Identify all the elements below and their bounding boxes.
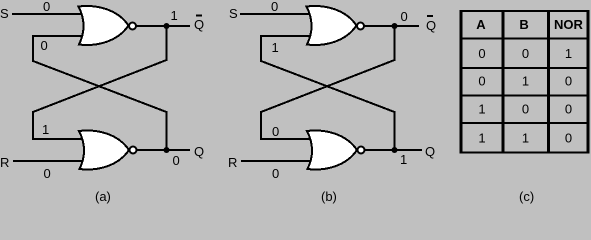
wire feedback: bottom gate output to top gate input 2 (a) bbox=[33, 36, 167, 150]
svg-text:0: 0 bbox=[41, 38, 48, 53]
inversion bubble G1 (a) bbox=[129, 23, 136, 30]
table row divider 2 bbox=[460, 95, 590, 97]
table top border bbox=[460, 10, 590, 12]
svg-text:0: 0 bbox=[272, 166, 279, 181]
svg-text:B: B bbox=[519, 17, 528, 32]
wire feedback: top gate output to bottom gate input 1 (a) bbox=[33, 26, 167, 139]
svg-text:0: 0 bbox=[522, 102, 529, 117]
svg-text:1: 1 bbox=[171, 8, 178, 23]
svg-text:0: 0 bbox=[43, 0, 50, 14]
svg-text:Q: Q bbox=[426, 18, 436, 33]
table row divider 1 bbox=[460, 67, 590, 69]
svg-text:(c): (c) bbox=[519, 189, 534, 204]
inversion bubble G3 (b) bbox=[357, 23, 364, 30]
svg-text:0: 0 bbox=[478, 74, 485, 89]
junction node Qbar (b) bbox=[392, 23, 398, 29]
svg-text:A: A bbox=[476, 17, 486, 32]
svg-text:1: 1 bbox=[400, 152, 407, 167]
svg-text:NOR: NOR bbox=[554, 17, 584, 32]
svg-text:1: 1 bbox=[272, 40, 279, 55]
svg-text:0: 0 bbox=[401, 9, 408, 24]
svg-text:Q: Q bbox=[194, 17, 204, 32]
svg-text:0: 0 bbox=[565, 74, 572, 89]
svg-text:1: 1 bbox=[522, 74, 529, 89]
svg-text:0: 0 bbox=[478, 46, 485, 61]
NOR gate G2 bottom (a) bbox=[79, 131, 129, 170]
svg-text:0: 0 bbox=[44, 166, 51, 181]
wire feedback: bottom gate output to top gate input 2 (b) bbox=[261, 36, 395, 150]
svg-text:0: 0 bbox=[522, 46, 529, 61]
svg-text:1: 1 bbox=[565, 46, 572, 61]
svg-text:0: 0 bbox=[565, 131, 572, 146]
table bottom border bbox=[460, 152, 590, 154]
svg-text:Q: Q bbox=[194, 144, 204, 159]
table right border bbox=[587, 10, 590, 153]
inversion bubble G2 (a) bbox=[130, 147, 137, 154]
svg-text:R: R bbox=[0, 155, 9, 170]
svg-text:1: 1 bbox=[478, 102, 485, 117]
wire S input (a) bbox=[12, 13, 84, 15]
table header divider bbox=[460, 38, 590, 40]
junction node Q (a) bbox=[164, 147, 170, 153]
wire bottom gate output to Q (a) bbox=[136, 149, 190, 151]
table row divider 3 bbox=[460, 122, 590, 124]
svg-text:0: 0 bbox=[272, 124, 279, 139]
wire top gate output to Qbar (b) bbox=[364, 25, 419, 27]
svg-text:(b): (b) bbox=[321, 189, 337, 204]
table left border bbox=[460, 10, 463, 153]
svg-text:S: S bbox=[229, 6, 238, 21]
wire R input (a) bbox=[13, 160, 84, 162]
svg-text:1: 1 bbox=[42, 122, 49, 137]
wire bottom gate output to Q (b) bbox=[364, 149, 422, 151]
svg-text:R: R bbox=[228, 155, 237, 170]
NOR gate G4 bottom (b) bbox=[307, 131, 357, 170]
junction node Qbar (a) bbox=[164, 23, 170, 29]
svg-text:1: 1 bbox=[522, 131, 529, 146]
overbar of Qbar (a) bbox=[196, 15, 202, 17]
wire S input (b) bbox=[240, 13, 312, 15]
junction node Q (b) bbox=[392, 147, 398, 153]
inversion bubble G4 (b) bbox=[358, 147, 365, 154]
svg-text:Q: Q bbox=[425, 144, 435, 159]
svg-text:1: 1 bbox=[478, 131, 485, 146]
wire top gate output to Qbar (a) bbox=[136, 25, 190, 27]
NOR gate G3 top (b) bbox=[307, 6, 357, 45]
svg-text:0: 0 bbox=[565, 102, 572, 117]
NOR gate G1 top (a) bbox=[79, 6, 129, 45]
svg-text:(a): (a) bbox=[95, 189, 111, 204]
overbar of Qbar (b) bbox=[427, 15, 433, 17]
table column divider A|B bbox=[502, 10, 505, 153]
svg-text:S: S bbox=[0, 6, 9, 21]
wire R input (b) bbox=[241, 160, 312, 162]
svg-text:0: 0 bbox=[271, 0, 278, 14]
wire feedback: top gate output to bottom gate input 1 (b) bbox=[261, 26, 395, 139]
table column divider B|NOR bbox=[547, 10, 550, 153]
svg-text:0: 0 bbox=[173, 153, 180, 168]
